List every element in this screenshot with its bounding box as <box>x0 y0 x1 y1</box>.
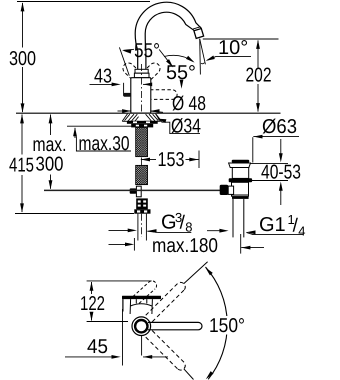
svg-text:150°: 150° <box>209 315 245 337</box>
svg-text:4: 4 <box>298 223 305 238</box>
plan spout swivelled up (dashed) <box>146 282 186 321</box>
plan handle bar <box>122 296 161 299</box>
plan handle tilted (dashed) <box>133 281 157 304</box>
dashed lever tilted left <box>123 63 144 84</box>
drain rod port <box>220 185 229 195</box>
water stream reference lines <box>199 39 202 75</box>
shank break centre line <box>141 158 143 167</box>
dimension max.180 <box>109 234 265 257</box>
svg-text:Ø34: Ø34 <box>171 115 201 137</box>
angle label 55 deg (handle tilt) <box>119 40 174 76</box>
mounting nut <box>127 121 158 128</box>
drain seal ring <box>229 178 252 182</box>
dashed lever horizontal <box>150 90 177 100</box>
svg-text:G1: G1 <box>259 214 286 236</box>
svg-text:300: 300 <box>9 48 36 70</box>
dimension 415 <box>9 114 134 213</box>
svg-text:45: 45 <box>87 336 108 358</box>
dimension 40-53 (clamping range) <box>251 139 302 205</box>
svg-text:Ø 48: Ø 48 <box>172 93 206 115</box>
svg-text:max.180: max.180 <box>152 235 218 257</box>
swivel arc 150 deg <box>206 267 228 379</box>
hose tails <box>137 214 139 241</box>
collar <box>134 73 149 78</box>
angle label 55 deg (spout swivel) <box>164 55 196 89</box>
dimension 153 <box>141 149 199 171</box>
plan spout swivelled down (dashed) <box>146 331 186 370</box>
deck / counter line <box>16 112 281 114</box>
svg-text:10°: 10° <box>218 37 248 59</box>
plan handle body <box>130 299 152 314</box>
pop-up rod (horizontal) <box>44 189 222 191</box>
drain plug cap <box>232 160 250 163</box>
body centre line <box>141 64 143 113</box>
angle label 10 deg <box>205 37 251 63</box>
plan body circle <box>132 317 151 336</box>
plan spout (solid, pointing right) <box>148 322 202 329</box>
dimension 202 (outlet height) <box>246 40 272 113</box>
G 1 1/4 drain thread label <box>207 212 306 238</box>
aerator <box>194 29 204 39</box>
top reference line (spout apex level) <box>17 1 150 3</box>
drain body upper <box>232 168 248 179</box>
outlet level reference line <box>203 38 279 40</box>
dashed lever tilted right <box>139 63 160 84</box>
svg-text:300: 300 <box>36 154 64 176</box>
drain body lower <box>232 182 249 196</box>
svg-text:8: 8 <box>185 219 192 234</box>
svg-text:202: 202 <box>246 65 272 87</box>
aerator joint line <box>193 27 201 29</box>
max.30 counter thickness <box>67 126 132 155</box>
counter section hatch right <box>144 114 161 122</box>
dimension 122 <box>80 281 152 322</box>
svg-text:max.30: max.30 <box>79 133 130 155</box>
svg-text:122: 122 <box>80 293 105 315</box>
faucet body <box>131 78 151 113</box>
dimension 43 <box>90 66 153 96</box>
dimension max.300 <box>33 114 67 189</box>
svg-text:415: 415 <box>9 155 34 177</box>
drain tailpipe <box>232 199 234 238</box>
drain flange <box>229 163 251 168</box>
spout gooseneck <box>135 2 201 73</box>
threaded shank upper <box>136 127 148 156</box>
dimension 45 <box>65 309 168 366</box>
svg-text:40-53: 40-53 <box>261 162 301 184</box>
counter section hatch left <box>122 114 139 122</box>
dimension 300 (spout height) <box>9 2 36 112</box>
dimension D34 (hole diameter) <box>156 115 201 137</box>
hose connector nuts <box>134 198 150 213</box>
dimension D63 (flange) <box>253 116 299 163</box>
body tab <box>123 93 130 97</box>
G 3/8 connection label <box>109 210 193 234</box>
svg-text:55°: 55° <box>134 40 160 62</box>
svg-text:Ø63: Ø63 <box>262 116 297 138</box>
dimension D48 (base diameter) <box>118 93 207 115</box>
svg-text:153: 153 <box>158 149 185 171</box>
threaded shank lower <box>136 165 148 184</box>
swivel limit lines <box>184 262 208 284</box>
lever cap neutral <box>135 69 148 73</box>
pop-up rod fitting <box>136 186 141 197</box>
